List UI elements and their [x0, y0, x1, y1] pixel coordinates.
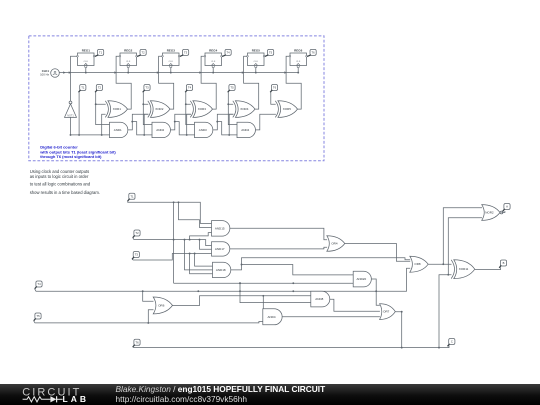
wire (T1 branch to AND15 mid input): [179, 202, 212, 227]
wire (branch to AND4 top input): [262, 296, 264, 312]
AND gate AND3: [195, 122, 213, 137]
AND gate AND15: [212, 221, 230, 237]
svg-text:NOT1: NOT1: [67, 114, 74, 117]
wire (T3 to AND18 top input): [195, 254, 213, 267]
XOR gate XOR2: [148, 101, 170, 118]
XOR gate XOR5: [275, 101, 297, 118]
svg-text:T4: T4: [227, 51, 231, 55]
terminal T2 (REG2 Q output): [140, 49, 146, 55]
wire (T4 tap to logic inputs): [185, 92, 195, 125]
dashed annotation box (counter group): [29, 36, 324, 161]
wire (CLK drop to REG6): [297, 68, 299, 74]
OR gate OR7: [380, 304, 396, 320]
wire (C up to XOR11 lower input): [439, 274, 452, 348]
terminal B (output): [499, 260, 506, 268]
svg-text:XOR4: XOR4: [240, 107, 249, 111]
inverter NOT1: [65, 101, 77, 117]
wire (XOR3 output to REG4 D input): [199, 56, 216, 109]
annotation (counter description): [39, 145, 116, 159]
AND gate AND8: [311, 291, 330, 307]
wire (REG2 Q to terminal T2): [137, 55, 141, 57]
svg-text:AND20: AND20: [356, 277, 366, 281]
terminal T3 (counter output tap): [143, 85, 150, 93]
wire (T1 to AND15): [128, 201, 212, 223]
wire (T2 row): [133, 238, 212, 246]
svg-text:show results in a time based d: show results in a time based diagram.: [30, 190, 100, 195]
OR gate OR6: [153, 297, 172, 314]
svg-text:T4: T4: [37, 282, 41, 286]
terminal T6 (REG6 Q output): [310, 49, 316, 55]
svg-text:AND4: AND4: [267, 315, 275, 319]
wire (AND2 carry out): [171, 114, 195, 136]
wire (T2 tap to logic inputs): [95, 92, 110, 125]
svg-text:as inputs to logic circuit in: as inputs to logic circuit in order: [30, 174, 89, 179]
XOR gate XOR3: [190, 101, 212, 118]
OR gate OR4: [327, 236, 345, 252]
svg-text:T2: T2: [135, 231, 139, 235]
svg-text:CLK: CLK: [84, 61, 89, 63]
wire (T2 to AND15 lower input): [190, 233, 212, 240]
svg-text:OR8: OR8: [414, 262, 421, 266]
AND gate AND18: [213, 262, 231, 277]
terminal T5 (counter output tap): [228, 85, 235, 93]
wire (clock bus): [59, 71, 298, 73]
terminal T3 (logic input): [132, 252, 139, 260]
wire (CLK drop to REG4): [212, 68, 214, 74]
wire (T6 line to terminal C): [133, 345, 449, 348]
wire (AND1 carry out): [128, 114, 152, 136]
wire (OR8 output to XOR11): [428, 263, 451, 265]
terminal T4 (logic input): [35, 281, 42, 289]
terminal T4 (counter output tap): [185, 85, 192, 93]
NOR gate NOR2: [482, 205, 503, 221]
wire (NOT1 output to REG1 D input): [69, 56, 77, 101]
wire (T3 row to AND17 lower input): [132, 253, 212, 260]
terminal C: [448, 339, 455, 347]
terminal T6 (counter output tap): [270, 85, 277, 93]
svg-text:to test all logic combinations: to test all logic combinations and: [30, 182, 91, 187]
svg-text:T3: T3: [145, 86, 149, 90]
wire (T1 tap down to T1 rail): [78, 92, 80, 135]
wire (bus1 to AND8 lower input): [239, 282, 311, 302]
D flip-flop REG4: [204, 49, 222, 68]
wire (CLK drop to REG1): [85, 68, 87, 74]
wire (OR7 output down to T6 line): [395, 311, 402, 349]
svg-text:AND8: AND8: [315, 297, 323, 301]
svg-text:T5: T5: [230, 86, 234, 90]
wire (REG5 Q to terminal T5): [265, 55, 269, 57]
wire (T2 to AND17 mid input): [200, 240, 212, 250]
svg-text:T6: T6: [312, 51, 316, 55]
AND gate AND17: [212, 242, 230, 256]
wire (branch to AND20 top input): [242, 265, 354, 275]
svg-text:T5: T5: [36, 314, 40, 318]
svg-text:CLK: CLK: [211, 61, 216, 63]
wire (XOR4 output to REG5 D input): [242, 56, 259, 109]
D flip-flop REG2: [119, 49, 137, 68]
terminal T5 (REG5 Q output): [268, 49, 274, 55]
svg-text:OR7: OR7: [383, 310, 390, 314]
wire (REG3 Q to terminal T3): [180, 55, 184, 57]
annotation (purpose note): [30, 169, 100, 195]
D flip-flop REG3: [162, 49, 180, 68]
svg-text:CLK: CLK: [126, 61, 131, 63]
D flip-flop REG5: [247, 49, 265, 68]
wire (OR4 output to OR8): [345, 244, 410, 262]
terminal T1 (logic input): [128, 193, 135, 201]
svg-text:OR4: OR4: [331, 242, 338, 246]
wire (T5 to OR6 lower input): [148, 310, 153, 323]
wire (REG6 Q to terminal T6): [307, 55, 311, 57]
wire (C to NOR2 lower input): [448, 218, 482, 275]
svg-text:XOR11: XOR11: [459, 267, 469, 271]
AND gate AND2: [152, 122, 170, 137]
wire (T6 tap to logic inputs): [271, 92, 276, 104]
svg-text:T3: T3: [135, 253, 139, 257]
svg-text:REG2: REG2: [124, 49, 133, 53]
AND gate AND1: [110, 122, 128, 137]
wire (T5 tap to logic inputs): [227, 92, 237, 125]
svg-text:AND4: AND4: [241, 128, 249, 132]
wire (AND18 output to OR8): [231, 258, 410, 270]
svg-text:T5: T5: [269, 51, 273, 55]
svg-text:AND18: AND18: [216, 268, 226, 272]
svg-text:AND3: AND3: [199, 128, 207, 132]
svg-text:T6: T6: [273, 86, 277, 90]
D flip-flop REG6: [289, 49, 307, 68]
wire (AND20 output to OR7): [371, 279, 380, 305]
wire (REG1 Q to terminal T1): [95, 55, 99, 57]
svg-text:AND2: AND2: [156, 128, 164, 132]
terminal T4 (REG4 Q output): [225, 49, 231, 55]
wire (AND3 carry out): [213, 114, 237, 136]
XOR gate XOR4: [233, 101, 255, 118]
XOR gate XOR11: [451, 260, 475, 279]
wire (AND8 output to OR7): [330, 299, 380, 311]
svg-text:CLK: CLK: [254, 61, 259, 63]
svg-text:100 Hz: 100 Hz: [40, 73, 49, 77]
wire (XOR1 output to REG2 D input): [114, 56, 131, 109]
terminal T2 (logic input): [133, 230, 140, 238]
wire (XOR2 output to REG3 D input): [157, 56, 174, 109]
svg-text:AND1: AND1: [114, 128, 122, 132]
wire (T4 to OR6 top input): [143, 291, 154, 301]
terminal T1 (REG1 Q output): [98, 49, 104, 55]
OR gate OR8: [410, 256, 428, 272]
svg-text:REG5: REG5: [252, 49, 261, 53]
wire (AND15 output to OR4): [230, 228, 327, 240]
wire (REG4 Q to terminal T4): [222, 55, 226, 57]
wire (T5 row to AND4): [34, 321, 263, 324]
svg-text:CLK: CLK: [296, 61, 301, 63]
svg-text:T2: T2: [142, 51, 146, 55]
svg-text:XOR3: XOR3: [198, 107, 207, 111]
wire (AND4 output to OR7): [282, 316, 380, 318]
svg-text:REG1: REG1: [82, 49, 91, 53]
svg-text:REG6: REG6: [294, 49, 303, 53]
wire (T1 branch down to bus): [173, 202, 175, 283]
wire (XOR11 output to terminal B): [475, 268, 501, 270]
voltage source CLK1 (clock, 100 Hz): [40, 69, 59, 78]
wire (AND4 carry out): [256, 114, 276, 130]
wire (NOR2 output to terminal A): [501, 211, 505, 213]
wire (T3 tap to logic inputs): [142, 92, 152, 125]
wire (OR6 output to AND8): [173, 295, 312, 306]
terminal T2 (counter output tap): [95, 85, 102, 93]
wire (CLK drop to REG3): [170, 68, 172, 74]
svg-text:T1: T1: [99, 51, 103, 55]
svg-text:C: C: [451, 340, 453, 344]
wire (AND17 output to OR4): [230, 247, 327, 249]
terminal T3 (REG3 Q output): [183, 49, 189, 55]
terminal A (output): [503, 204, 510, 212]
CircuitLab logo: [0, 384, 110, 405]
wire (T4 bus): [35, 268, 411, 292]
wire (T1 rail up to XOR1 input): [102, 114, 106, 135]
wire (CLK drop to REG2): [127, 68, 129, 74]
svg-text:T3: T3: [184, 51, 188, 55]
wire (NOT1 input from T1 rail): [70, 117, 72, 135]
svg-text:XOR1: XOR1: [113, 107, 122, 111]
svg-text:T6: T6: [135, 340, 139, 344]
XOR gate XOR1: [105, 101, 127, 118]
svg-text:B: B: [503, 261, 505, 265]
wire (OR8 output to NOR2 top input): [443, 208, 482, 264]
svg-text:LAB: LAB: [63, 394, 89, 404]
svg-text:CLK: CLK: [169, 61, 174, 63]
wire (T1 bus to AND20): [174, 282, 354, 284]
AND gate AND4: [237, 122, 255, 137]
D flip-flop REG1: [77, 49, 95, 68]
svg-text:AND15: AND15: [215, 226, 225, 230]
AND gate AND20: [353, 271, 371, 287]
svg-text:T2: T2: [98, 86, 102, 90]
svg-text:A: A: [506, 205, 508, 209]
svg-text:AND17: AND17: [215, 247, 225, 251]
wire (T1 rail): [71, 134, 110, 136]
AND gate AND4: [263, 309, 282, 325]
svg-text:through T6 (most significant b: through T6 (most significant bit): [40, 154, 102, 159]
svg-text:XOR5: XOR5: [283, 107, 292, 111]
svg-text:REG4: REG4: [209, 49, 218, 53]
svg-text:NOR2: NOR2: [485, 211, 494, 215]
svg-text:XOR2: XOR2: [155, 107, 164, 111]
svg-text:T4: T4: [188, 86, 192, 90]
wire (CLK drop to REG5): [255, 68, 257, 74]
wire (XOR5 output to REG6 D input): [284, 56, 301, 109]
svg-text:T1: T1: [81, 86, 85, 90]
terminal T5 (logic input): [34, 313, 41, 321]
svg-text:REG3: REG3: [167, 49, 176, 53]
terminal T6 (logic input): [133, 339, 140, 347]
footer bar: [0, 384, 540, 405]
terminal T1 (counter output tap): [79, 85, 86, 93]
wire (T2 to AND18 mid input): [185, 240, 213, 270]
svg-text:T1: T1: [130, 194, 134, 198]
wire (T3 to AND18 lower input): [190, 254, 213, 274]
svg-text:OR6: OR6: [158, 303, 165, 307]
